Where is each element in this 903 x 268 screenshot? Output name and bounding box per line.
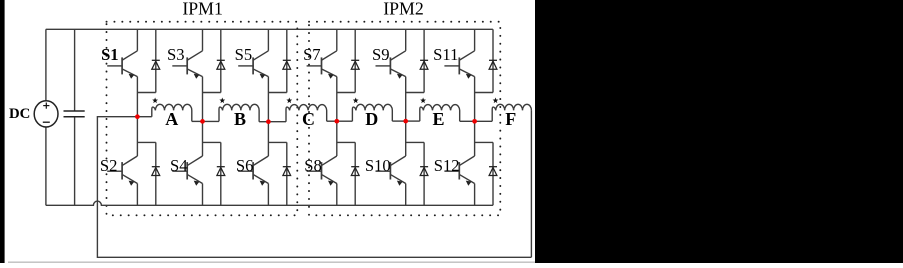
wire: leg 6 midpoint vertical	[474, 77, 476, 122]
IGBT S3 (upper device)	[172, 29, 202, 78]
wire: node segment from leg 4 junction to inductor D	[337, 120, 353, 122]
svg-text:S6: S6	[236, 156, 254, 175]
wire: node D to leg 5 junction	[392, 120, 405, 122]
freewheeling diode D2 (lower)	[152, 142, 160, 205]
IGBT S9 (upper device)	[376, 29, 406, 78]
wire: node C to leg 4 junction	[327, 120, 337, 122]
junction dot at leg 1 midpoint	[135, 114, 140, 119]
freewheeling diode D10 (lower)	[420, 142, 428, 205]
junction dot at leg 3 midpoint	[266, 119, 271, 124]
capacitor C1	[64, 111, 85, 117]
IGBT S6 (lower device)	[238, 122, 268, 206]
wire: segment leg 1 junction to inductor A	[137, 116, 151, 118]
wire: node segment from leg 5 junction to inductor E	[406, 120, 420, 122]
IGBT S7 (upper device)	[307, 29, 337, 78]
polarity dot marker (star) for inductor B	[219, 98, 225, 104]
svg-text:IPM2: IPM2	[383, 0, 424, 19]
freewheeling diode D4 (lower)	[217, 142, 225, 205]
svg-text:S10: S10	[365, 156, 391, 175]
freewheeling diode D9 (upper)	[420, 29, 428, 92]
svg-text:A: A	[165, 109, 178, 129]
freewheeling diode D8 (lower)	[351, 142, 359, 205]
IGBT S8 (lower device)	[307, 121, 337, 205]
polarity dot marker (star) for inductor F	[493, 98, 499, 104]
wire: node segment from leg 2 junction to inductor B	[203, 120, 220, 122]
svg-text:B: B	[234, 109, 246, 129]
coupled inductor L4 (phase D)	[352, 104, 392, 121]
IGBT S11 (upper device)	[444, 29, 474, 78]
svg-text:S3: S3	[167, 45, 185, 64]
wire: capacitor branch top	[74, 29, 76, 111]
svg-text:E: E	[432, 109, 444, 129]
svg-text:D: D	[365, 109, 378, 129]
polarity dot marker (star) for inductor D	[353, 98, 359, 104]
svg-text:S8: S8	[304, 156, 322, 175]
wire: collector-diode junction (lower leg 6)	[268, 141, 286, 143]
wire: emitter-diode junction (upper leg 1)	[137, 92, 155, 94]
IGBT S1 (upper device)	[107, 29, 137, 78]
IGBT S10 (lower device)	[376, 121, 406, 205]
wire: collector-diode junction (lower leg 12)	[475, 141, 493, 143]
svg-text:IPM1: IPM1	[182, 0, 223, 19]
freewheeling diode D1 (upper)	[152, 29, 160, 92]
wire: node A to leg 2 junction	[192, 120, 203, 122]
wire: emitter-diode junction (upper leg 7)	[337, 92, 355, 94]
wire: leg 4 midpoint vertical	[336, 77, 338, 122]
polarity dot marker (star) for inductor E	[420, 98, 426, 104]
wire: capacitor branch bottom	[74, 117, 76, 206]
bottom grey page edge line	[8, 261, 535, 263]
svg-text:S1: S1	[101, 45, 119, 64]
wire: left rail top segment	[45, 29, 47, 101]
coupled inductor L2 (phase B)	[219, 104, 259, 121]
svg-text:S12: S12	[434, 156, 460, 175]
wire: top DC bus rail	[46, 28, 493, 30]
freewheeling diode D11 (upper)	[489, 29, 497, 92]
wire: collector-diode junction (lower leg 2)	[137, 141, 155, 143]
freewheeling diode D6 (lower)	[283, 142, 291, 205]
wire: collector-diode junction (lower leg 10)	[406, 141, 424, 143]
wire: emitter-diode junction (upper leg 3)	[203, 92, 221, 94]
svg-text:S4: S4	[170, 156, 188, 175]
wire: collector-diode junction (lower leg 4)	[203, 141, 221, 143]
IGBT S5 (upper device)	[238, 29, 268, 78]
junction dot at leg 5 midpoint	[403, 119, 408, 124]
coupled inductor L1 (phase A)	[152, 104, 192, 121]
IGBT S2 (lower device)	[107, 117, 137, 206]
IPM2 module dotted box	[309, 22, 500, 216]
svg-text:S2: S2	[100, 156, 118, 175]
left black border bar	[0, 0, 5, 263]
svg-text:S9: S9	[372, 45, 390, 64]
wire: leg 5 midpoint vertical	[405, 77, 407, 122]
wire: leg 2 midpoint vertical	[202, 77, 204, 122]
right black region	[535, 0, 903, 263]
coupled inductor L5 (phase E)	[420, 105, 460, 122]
wire: leg 3 midpoint vertical	[267, 77, 269, 122]
DC voltage source	[34, 101, 58, 127]
freewheeling diode D5 (upper)	[283, 29, 291, 92]
wire: emitter-diode junction (upper leg 11)	[475, 92, 493, 94]
junction dot at leg 2 midpoint	[200, 119, 205, 124]
IGBT S12 (lower device)	[444, 121, 474, 205]
freewheeling diode D12 (lower)	[489, 142, 497, 205]
wire: right return vertical from inductor F	[530, 110, 532, 257]
svg-text:S5: S5	[235, 45, 253, 64]
svg-text:S7: S7	[303, 45, 321, 64]
polarity dot marker (star) for inductor C	[286, 98, 292, 104]
svg-text:S11: S11	[433, 45, 458, 64]
wire: node B to leg 3 junction	[259, 121, 268, 123]
wire: node E to leg 6 junction	[460, 120, 475, 122]
freewheeling diode D3 (upper)	[217, 29, 225, 92]
freewheeling diode D7 (upper)	[351, 29, 359, 92]
wire: emitter-diode junction (upper leg 9)	[406, 92, 424, 94]
junction dot at leg 6 midpoint	[472, 119, 477, 124]
wire: bottom DC bus rail with hop over return wire	[46, 201, 493, 205]
polarity dot marker (star) for inductor A	[152, 98, 158, 104]
svg-text:F: F	[505, 109, 516, 129]
coupled inductor L3 (phase C)	[286, 105, 327, 122]
wire: node segment from leg 3 junction to inductor C	[268, 121, 286, 123]
wire: leg 1 midpoint vertical	[136, 77, 138, 117]
IPM1 module dotted box	[107, 22, 298, 216]
wire: phase-loop feed corner (left vertical return)	[97, 117, 531, 258]
wire: emitter-diode junction (upper leg 5)	[268, 92, 286, 94]
wire: left rail bottom segment	[45, 127, 47, 205]
svg-text:C: C	[302, 109, 315, 129]
wire: collector-diode junction (lower leg 8)	[337, 141, 355, 143]
wire: node segment from leg 6 junction to inductor F	[475, 120, 493, 122]
IGBT S4 (lower device)	[172, 121, 202, 205]
svg-text:DC: DC	[9, 106, 30, 122]
coupled inductor L6 (phase F)	[492, 104, 531, 121]
junction dot at leg 4 midpoint	[334, 119, 339, 124]
